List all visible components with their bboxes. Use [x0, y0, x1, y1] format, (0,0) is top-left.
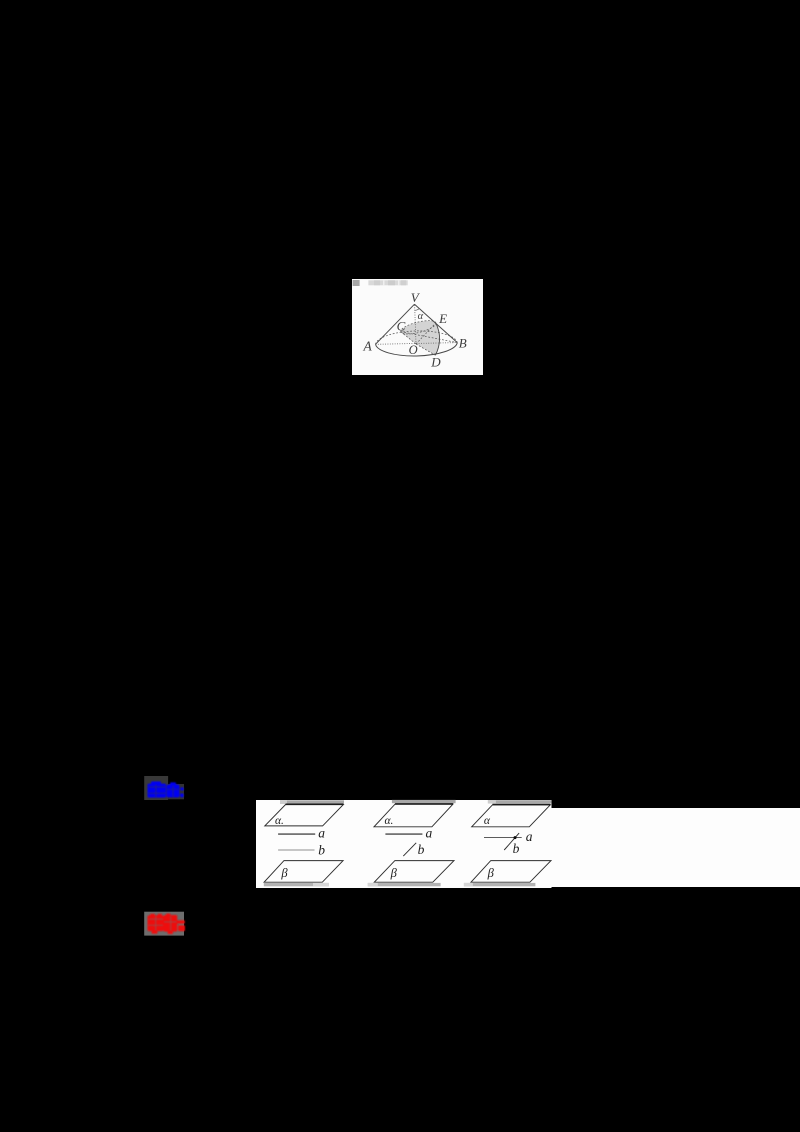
gray shadow bar top 2 — [392, 800, 456, 803]
svg-text:a: a — [526, 829, 533, 844]
svg-text:B: B — [459, 336, 467, 351]
svg-text:E: E — [438, 311, 447, 326]
plane beta 1 — [264, 861, 343, 883]
cone left slant VA — [376, 304, 415, 344]
plane beta 3 — [471, 861, 551, 883]
svg-text:C: C — [397, 319, 406, 334]
line a 1 — [278, 833, 315, 835]
plane alpha 3 — [472, 805, 551, 827]
white image background left — [256, 800, 552, 888]
svg-text:a: a — [318, 826, 325, 841]
faint caption mark — [353, 280, 360, 286]
white band with three plane diagrams — [256, 795, 800, 892]
white image background right — [551, 808, 800, 887]
shaded region C-E-D-O — [401, 321, 440, 355]
dashed line OD — [416, 344, 435, 355]
plane alpha 2 — [374, 804, 453, 827]
svg-text:β: β — [280, 866, 288, 880]
svg-text:A: A — [362, 339, 372, 354]
svg-text:α: α — [484, 815, 491, 827]
dashed chord CB — [401, 332, 458, 343]
svg-text:O: O — [409, 343, 418, 357]
svg-text:β: β — [390, 866, 398, 880]
line b 1 — [278, 849, 314, 851]
svg-text:a: a — [426, 826, 433, 841]
small cross-section ellipse dashed — [400, 318, 438, 337]
cone figure white box — [352, 279, 483, 375]
svg-text:b: b — [318, 843, 325, 858]
cone right slant VB — [415, 304, 458, 342]
plane alpha 1 — [265, 805, 344, 826]
faint caption bar — [368, 280, 407, 285]
gray shadow bar bottom 1 — [264, 883, 329, 886]
dashed line CO — [401, 332, 416, 344]
dotted diameter AB — [376, 343, 458, 345]
red section tag — [140, 908, 192, 940]
line a 2 — [385, 833, 422, 835]
line b 3 slanted crossing — [504, 833, 519, 850]
svg-text:b: b — [513, 841, 520, 856]
gray shadow bar bottom 3 — [464, 883, 536, 886]
line a 3 — [484, 836, 522, 838]
plane beta 2 — [374, 861, 454, 883]
svg-text:β: β — [487, 866, 495, 880]
svg-text:D: D — [430, 354, 441, 369]
dashed line OE — [416, 323, 436, 344]
intersection dot 3 — [514, 836, 517, 839]
line b 2 slanted — [403, 843, 416, 856]
gray shadow bar top 3 — [488, 800, 552, 803]
svg-text:α.: α. — [275, 815, 284, 827]
gray shadow bar top 1 — [280, 800, 344, 804]
blue section tag — [140, 772, 192, 804]
svg-text:b: b — [418, 842, 425, 857]
apex angle arc — [415, 309, 420, 311]
svg-text:α.: α. — [384, 815, 393, 827]
dotted axis VO — [415, 305, 416, 344]
base ellipse back arc dashed — [376, 331, 458, 344]
base ellipse front arc — [376, 343, 458, 356]
svg-text:α: α — [418, 311, 424, 322]
gray shadow bar bottom 2 — [368, 883, 441, 886]
solid arc ED — [435, 323, 439, 355]
